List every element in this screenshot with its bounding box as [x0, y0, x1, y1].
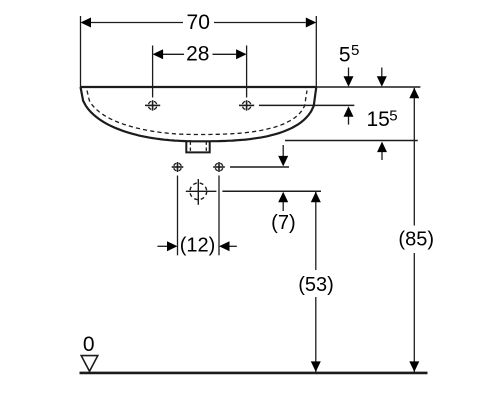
dimension (7): lower arrow [282, 202, 284, 212]
dimension 15.5: upper arrow [381, 68, 383, 78]
tap hole left (drill cross) [145, 104, 160, 106]
dimension (85): vertical line with gap for text [413, 88, 415, 226]
dimension 28: extension line left [152, 46, 154, 98]
svg-text:5: 5 [389, 107, 397, 124]
floor line [80, 372, 428, 375]
dimension 28: dimension line with arrows [163, 53, 184, 55]
fixing hole left (drill cross) [172, 166, 184, 168]
washbasin outer bowl outline [81, 87, 317, 141]
svg-text:(12): (12) [180, 235, 216, 257]
tap hole right (drill cross) [239, 104, 254, 106]
svg-text:(85): (85) [398, 229, 434, 251]
tap hole level reference line [259, 104, 354, 106]
dimension (12): extension line left [177, 176, 179, 256]
dimension (12): right outside arrow [230, 245, 237, 247]
svg-text:(53): (53) [298, 274, 334, 296]
svg-text:5: 5 [351, 42, 359, 59]
svg-text:28: 28 [186, 43, 209, 66]
drain hole centerlines [186, 190, 217, 192]
washbasin top rim edge [81, 86, 317, 88]
svg-text:(7): (7) [271, 212, 295, 234]
dimension 70: extension line left [80, 16, 82, 87]
fixing hole level reference line [230, 166, 289, 168]
dimension (12): extension line right [218, 176, 220, 256]
overflow level reference line [285, 140, 418, 142]
dimension 5.5: lower arrow [348, 116, 350, 125]
dimension (12): left outside arrow [158, 245, 168, 247]
svg-text:70: 70 [187, 11, 210, 34]
svg-text:15: 15 [367, 108, 390, 131]
dimension (53): vertical line with gap for text [315, 192, 317, 270]
dimension 70: extension line right [315, 16, 317, 87]
drain fitting under basin [186, 141, 209, 153]
dimension 5.5: upper arrow [348, 68, 350, 78]
drain level reference line [222, 190, 321, 192]
datum triangle (zero level) [81, 356, 98, 372]
dimension 28: extension line right [246, 46, 248, 98]
washbasin inner rim (hidden edge, dashed) [87, 91, 307, 135]
rim level reference line [316, 86, 420, 88]
svg-text:5: 5 [339, 43, 351, 66]
svg-text:0: 0 [83, 333, 95, 356]
dimension (7): upper arrow hanging from overflow line [282, 145, 284, 157]
drain fitting inner walls (hidden, dashed) [189, 142, 191, 153]
fixing hole right (drill cross) [213, 166, 225, 168]
dimension 70: dimension line with arrows [91, 22, 183, 24]
dimension 15.5: lower arrow [381, 151, 383, 160]
drain hole circle (dashed) [190, 183, 207, 200]
